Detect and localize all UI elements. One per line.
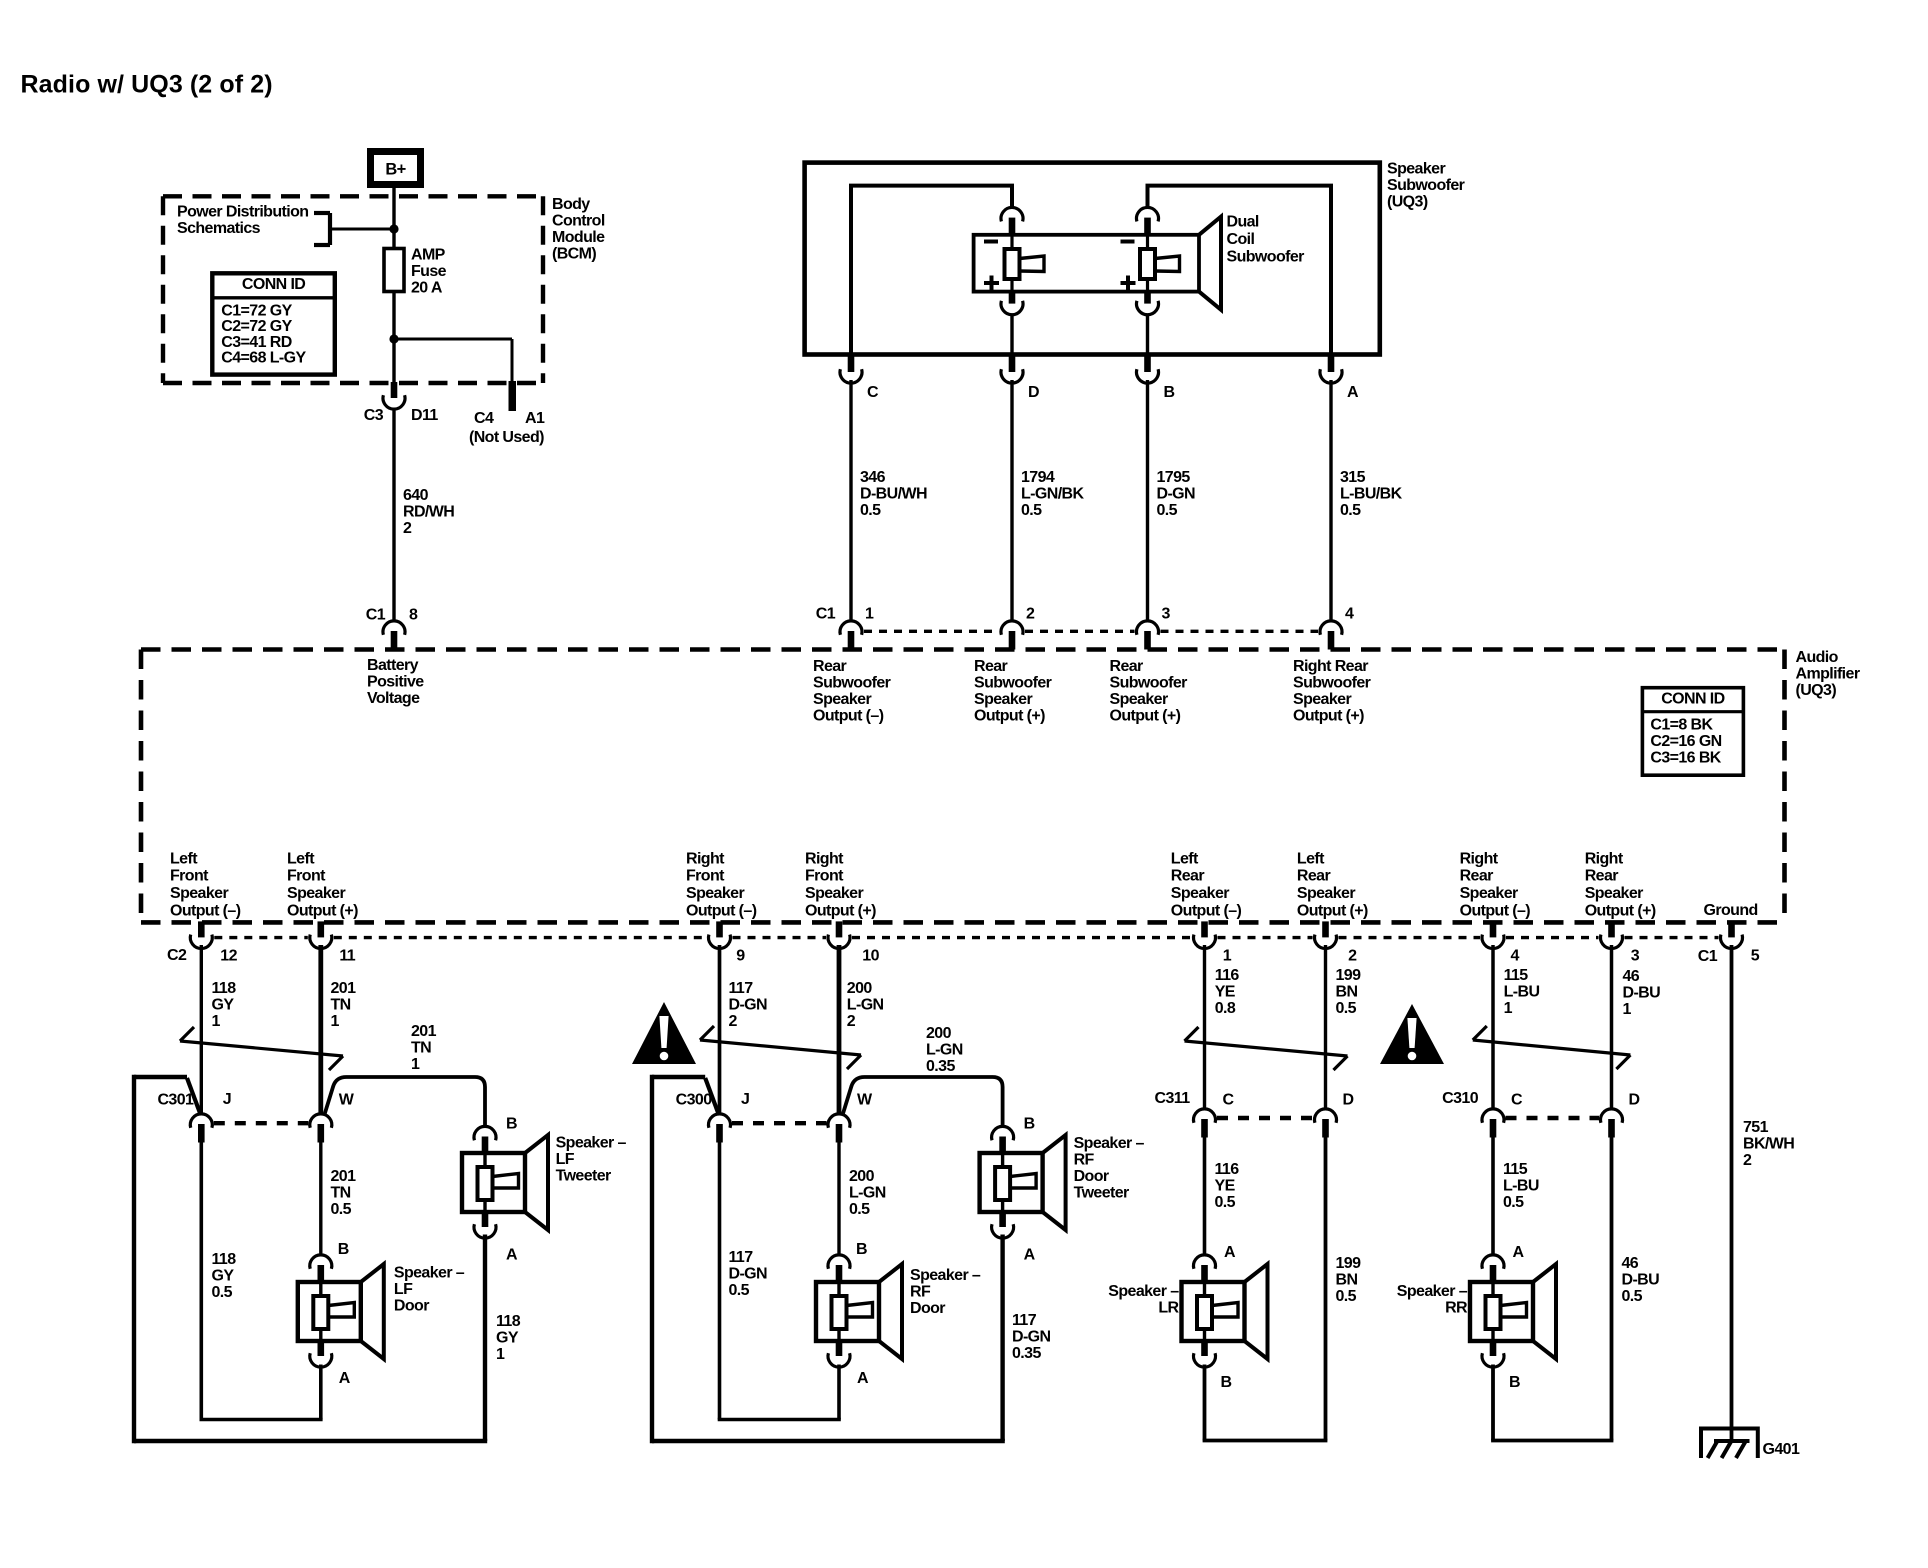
svg-text:2: 2	[729, 1013, 738, 1030]
svg-text:Output (+): Output (+)	[1297, 902, 1368, 919]
svg-text:L-GN/BK: L-GN/BK	[1021, 486, 1085, 503]
label: Right Rear Speaker Output (+)	[1585, 850, 1656, 919]
svg-text:2: 2	[847, 1013, 856, 1030]
svg-text:C310: C310	[1442, 1090, 1479, 1107]
svg-text:A: A	[1224, 1244, 1236, 1261]
label: pin 12	[220, 948, 237, 965]
svg-text:C2=72 GY: C2=72 GY	[221, 318, 292, 335]
svg-text:A: A	[1024, 1247, 1036, 1264]
wire 115 L-BU 1 (pin 4)	[1491, 945, 1495, 1109]
wire return loop RR	[1491, 1135, 1613, 1441]
C311 C-D dashed connector line	[1217, 1116, 1313, 1120]
svg-text:Speaker: Speaker	[170, 885, 228, 902]
twisted-pair arrow (front left)	[180, 1027, 343, 1070]
svg-text:0.5: 0.5	[1336, 1000, 1357, 1017]
svg-text:Output (–): Output (–)	[1171, 902, 1242, 919]
label: C1 (pin 8)	[366, 607, 386, 624]
speaker RR A connector	[1482, 1255, 1504, 1284]
svg-text:0.5: 0.5	[1021, 502, 1042, 519]
svg-text:D-BU/WH: D-BU/WH	[860, 486, 927, 503]
label: 200 L-GN 2	[847, 980, 884, 1030]
label: (Not Used)	[469, 429, 544, 446]
label: pin C	[867, 384, 879, 401]
label: Left Front Speaker Output (-)	[170, 850, 241, 919]
label: C (C310)	[1511, 1092, 1523, 1109]
label: 199 BN 0.5	[1336, 1255, 1362, 1305]
svg-text:C300: C300	[676, 1092, 713, 1109]
label: J	[223, 1091, 231, 1108]
label: 201 TN 0.5	[331, 1168, 357, 1218]
label: Speaker - RF Door Tweeter	[1074, 1135, 1145, 1202]
svg-text:Left: Left	[170, 850, 198, 867]
label: 116 YE 0.5	[1215, 1161, 1240, 1211]
svg-text:A: A	[857, 1370, 869, 1387]
svg-text:1: 1	[1623, 1001, 1632, 1018]
svg-text:201: 201	[331, 980, 357, 997]
label: Speaker - LF Door	[394, 1265, 465, 1315]
svg-text:1: 1	[331, 1013, 340, 1030]
svg-text:L-GN: L-GN	[849, 1185, 886, 1202]
label: Left Rear Speaker Output (-)	[1171, 850, 1242, 919]
amp bottom connector pin 1	[1194, 921, 1216, 948]
wire tweeter feed (W to tweeter B) LF	[325, 1077, 485, 1127]
tweeter A connector RF	[992, 1211, 1014, 1238]
label: Right Rear Subwoofer Speaker Output (+)	[1293, 658, 1371, 725]
svg-text:Amplifier: Amplifier	[1796, 666, 1860, 683]
warning triangle 2	[1380, 1004, 1444, 1064]
svg-text:3: 3	[1631, 948, 1640, 965]
svg-text:200: 200	[847, 980, 873, 997]
svg-text:Front: Front	[170, 868, 209, 885]
label: 751 BK/WH 2	[1743, 1119, 1794, 1169]
svg-text:Speaker –: Speaker –	[1397, 1283, 1468, 1300]
svg-text:Door: Door	[394, 1298, 429, 1315]
amp bottom connector pin 5	[1721, 921, 1743, 948]
svg-text:4: 4	[1345, 606, 1354, 623]
svg-text:Right Rear: Right Rear	[1293, 658, 1368, 675]
speaker LR	[1182, 1264, 1268, 1359]
label: B (door LF)	[338, 1241, 349, 1258]
amp connector C1 pin 2	[1001, 621, 1023, 650]
svg-text:C1=72 GY: C1=72 GY	[221, 302, 292, 319]
label: W	[857, 1092, 873, 1109]
svg-text:118: 118	[212, 1251, 237, 1268]
label: C301	[157, 1092, 194, 1109]
svg-text:1794: 1794	[1021, 469, 1055, 486]
svg-text:W: W	[339, 1092, 355, 1109]
node: junction to C4 branch	[389, 334, 398, 343]
svg-text:C3=41 RD: C3=41 RD	[221, 334, 291, 351]
svg-text:C: C	[1511, 1092, 1523, 1109]
svg-text:W: W	[857, 1092, 873, 1109]
svg-text:L-GN: L-GN	[926, 1042, 963, 1059]
wire return loop LR	[1203, 1135, 1328, 1441]
label: C2 (bottom row)	[167, 947, 187, 964]
svg-text:A1: A1	[525, 410, 545, 427]
svg-text:B: B	[1164, 384, 1175, 401]
subwoofer pin B connector	[1137, 356, 1159, 383]
wire tweeter feed (W to tweeter B) RF	[843, 1077, 1003, 1127]
C301 connector J	[190, 1114, 212, 1143]
label: B (tweeter LF)	[506, 1116, 517, 1133]
door speaker B connector LF	[310, 1255, 332, 1284]
svg-text:Dual: Dual	[1227, 214, 1259, 231]
label: Dual Coil Subwoofer	[1227, 214, 1305, 266]
svg-text:315: 315	[1340, 469, 1366, 486]
wire 116 YE 0.8 (pin 1)	[1203, 945, 1206, 1109]
svg-text:L-BU/BK: L-BU/BK	[1340, 486, 1403, 503]
svg-text:0.5: 0.5	[331, 1201, 352, 1218]
label: A (speaker RR)	[1513, 1244, 1525, 1261]
BCM CONN ID table	[212, 273, 334, 374]
label: pin 10	[862, 948, 879, 965]
svg-text:346: 346	[860, 469, 886, 486]
svg-text:Rear: Rear	[1110, 658, 1144, 675]
svg-text:0.35: 0.35	[926, 1058, 955, 1075]
wire coil1 top routing to pin C	[851, 186, 1012, 355]
svg-text:200: 200	[849, 1168, 875, 1185]
wire to Power Distribution Schematics bracket	[330, 228, 394, 231]
label: pin B	[1164, 384, 1175, 401]
svg-text:J: J	[223, 1091, 231, 1108]
svg-text:Speaker –: Speaker –	[910, 1267, 981, 1284]
svg-text:LF: LF	[394, 1281, 413, 1298]
coil2 top terminal connector	[1137, 207, 1159, 236]
svg-text:C4: C4	[474, 410, 494, 427]
svg-text:B: B	[506, 1116, 517, 1133]
svg-text:Door: Door	[910, 1300, 945, 1317]
twisted-pair arrow (rear right)	[1473, 1026, 1631, 1069]
amp bottom connector pin 3	[1600, 921, 1622, 948]
svg-text:Subwoofer: Subwoofer	[1110, 675, 1188, 692]
svg-text:D: D	[1343, 1092, 1354, 1109]
svg-text:YE: YE	[1215, 984, 1236, 1001]
speaker RR	[1470, 1264, 1556, 1359]
svg-text:L-GN: L-GN	[847, 997, 884, 1014]
svg-text:117: 117	[729, 980, 754, 997]
svg-text:2: 2	[1348, 948, 1357, 965]
label: 315 L-BU/BK 0.5	[1340, 469, 1403, 519]
LF circuit loop outline	[134, 1075, 487, 1443]
label: Battery Positive Voltage	[367, 657, 424, 707]
svg-text:C3: C3	[364, 407, 384, 424]
C300 connector W	[828, 1114, 850, 1143]
svg-text:Rear: Rear	[1171, 868, 1205, 885]
svg-text:Body: Body	[552, 196, 590, 213]
svg-text:0.5: 0.5	[1622, 1288, 1643, 1305]
svg-text:Front: Front	[686, 868, 725, 885]
wire C to speaker LR	[1203, 1135, 1207, 1255]
amp bottom connector pin 9	[709, 921, 731, 948]
wire 199 BN 0.5 (pin 2)	[1324, 945, 1327, 1109]
svg-text:Right: Right	[1460, 850, 1499, 867]
label: C4	[474, 410, 494, 427]
svg-text:(Not Used): (Not Used)	[469, 429, 544, 446]
svg-text:0.5: 0.5	[849, 1201, 870, 1218]
amp bottom connector pin 10	[828, 921, 850, 948]
svg-text:199: 199	[1336, 1255, 1362, 1272]
twisted-pair arrow (rear left)	[1185, 1027, 1348, 1070]
subwoofer coil 2 (B)	[1140, 235, 1180, 292]
C1 connector dotted bus line	[864, 630, 1318, 633]
svg-text:118: 118	[496, 1313, 521, 1330]
svg-text:C3=16 BK: C3=16 BK	[1650, 749, 1721, 766]
svg-text:10: 10	[862, 948, 879, 965]
label: coil2 minus	[1121, 240, 1135, 244]
svg-text:Output (–): Output (–)	[170, 902, 241, 919]
label: coil1 minus	[984, 240, 998, 244]
svg-text:GY: GY	[496, 1330, 519, 1347]
label: 118 GY 1	[212, 980, 237, 1030]
svg-text:D-GN: D-GN	[729, 997, 768, 1014]
label: D11	[411, 407, 438, 424]
label: AMP Fuse 20 A	[411, 247, 447, 297]
label: pin A	[1347, 384, 1359, 401]
label: 2	[1026, 606, 1035, 623]
speaker subwoofer (UQ3) box	[805, 163, 1380, 355]
svg-text:200: 200	[926, 1025, 952, 1042]
subwoofer pin D connector	[1001, 356, 1023, 383]
label: A (door LF)	[339, 1370, 351, 1387]
svg-text:Subwoofer: Subwoofer	[1227, 249, 1305, 266]
svg-text:(UQ3): (UQ3)	[1796, 682, 1837, 699]
coil1 bottom terminal connector	[1001, 291, 1023, 315]
label: 1795 D-GN 0.5	[1157, 469, 1196, 519]
svg-text:Speaker: Speaker	[813, 691, 871, 708]
label: A (speaker LR)	[1224, 1244, 1236, 1261]
svg-text:B: B	[1509, 1374, 1520, 1391]
node: junction at power distribution tap	[389, 224, 398, 233]
label: 115 L-BU 0.5	[1503, 1161, 1539, 1211]
svg-text:0.8: 0.8	[1215, 1000, 1236, 1017]
label: W	[339, 1092, 355, 1109]
svg-text:RR: RR	[1445, 1300, 1468, 1317]
svg-text:Radio w/ UQ3 (2 of 2): Radio w/ UQ3 (2 of 2)	[21, 71, 273, 99]
speaker tweeter LF	[462, 1135, 548, 1230]
wire 46 D-BU 1 (pin 3)	[1610, 945, 1614, 1109]
wire tweeter return (right edge bottom) LF	[483, 1235, 487, 1442]
svg-text:Module: Module	[552, 229, 605, 246]
label: C300	[676, 1092, 713, 1109]
label: Speaker Subwoofer (UQ3)	[1387, 161, 1465, 211]
svg-text:0.5: 0.5	[1503, 1194, 1524, 1211]
svg-text:Rear: Rear	[1460, 868, 1494, 885]
label: 117 D-GN 0.5	[729, 1249, 768, 1299]
amp bottom connector pin 2	[1315, 921, 1337, 948]
C310 connector C	[1482, 1109, 1504, 1138]
svg-text:Speaker: Speaker	[974, 691, 1032, 708]
svg-text:0.5: 0.5	[1340, 502, 1361, 519]
svg-text:115: 115	[1503, 1161, 1528, 1178]
label: Rear Subwoofer Speaker Output (+) [pin3]	[1110, 658, 1188, 725]
svg-text:Subwoofer: Subwoofer	[974, 675, 1052, 692]
label: pin D	[1028, 384, 1039, 401]
svg-text:Speaker: Speaker	[1293, 691, 1351, 708]
svg-text:Speaker: Speaker	[1387, 161, 1445, 178]
svg-text:4: 4	[1511, 948, 1520, 965]
wire coil2 bottom to pin B	[1146, 315, 1149, 355]
svg-text:Output (+): Output (+)	[1110, 708, 1181, 725]
label: Left Rear Speaker Output (+)	[1297, 850, 1368, 919]
wire 118 GY 1 (pin 12)	[200, 945, 203, 1114]
power symbol B+	[371, 152, 421, 185]
svg-text:BN: BN	[1336, 1272, 1358, 1289]
tweeter A connector LF	[474, 1211, 496, 1238]
svg-text:D11: D11	[411, 407, 438, 424]
wire fuse to BCM bottom	[392, 292, 395, 383]
svg-text:Output (–): Output (–)	[813, 708, 884, 725]
svg-text:A: A	[506, 1247, 518, 1264]
svg-text:Front: Front	[287, 868, 326, 885]
label: 1	[865, 606, 874, 623]
label: Ground	[1704, 902, 1758, 919]
label: 4	[1345, 606, 1354, 623]
speaker door LF	[298, 1264, 384, 1359]
svg-text:(BCM): (BCM)	[552, 246, 596, 263]
svg-text:115: 115	[1504, 967, 1529, 984]
label: A1	[525, 410, 545, 427]
svg-text:1: 1	[1223, 948, 1232, 965]
label: 200 L-GN 0.5	[849, 1168, 886, 1218]
svg-text:TN: TN	[331, 1185, 351, 1202]
label: Power Distribution Schematics	[177, 204, 308, 238]
label: A (tweeter RF)	[1024, 1247, 1036, 1264]
label: A (tweeter LF)	[506, 1247, 518, 1264]
svg-text:0.35: 0.35	[1012, 1345, 1041, 1362]
label: 8	[409, 607, 418, 624]
wire 200 L-GN 2 (pin 10)	[837, 945, 842, 1114]
label: Right Front Speaker Output (-)	[686, 850, 757, 919]
coil1 top terminal connector	[1001, 207, 1023, 236]
C310 C-D dashed connector line	[1506, 1116, 1600, 1120]
svg-text:0.5: 0.5	[1215, 1194, 1236, 1211]
svg-text:Speaker: Speaker	[1297, 885, 1355, 902]
svg-text:Voltage: Voltage	[367, 690, 420, 707]
label: pin 11	[339, 948, 355, 965]
svg-text:201: 201	[331, 1168, 357, 1185]
svg-text:B: B	[856, 1241, 867, 1258]
svg-text:C: C	[867, 384, 879, 401]
wire 346 D-BU/WH 0.5 (pin C to amp 1)	[849, 380, 852, 620]
svg-text:B+: B+	[385, 160, 405, 178]
label: D (C310)	[1629, 1092, 1640, 1109]
wire W to door speaker RF	[837, 1140, 840, 1255]
label: Speaker - RF Door	[910, 1267, 981, 1317]
label: Left Front Speaker Output (+)	[287, 850, 358, 919]
svg-text:Output (–): Output (–)	[1460, 902, 1531, 919]
pin C4 A1 stub (not used)	[509, 381, 517, 411]
label: pin 3	[1631, 948, 1640, 965]
svg-text:1: 1	[212, 1013, 221, 1030]
label: J	[741, 1091, 749, 1108]
svg-text:Tweeter: Tweeter	[1074, 1185, 1129, 1202]
svg-text:5: 5	[1751, 948, 1760, 965]
svg-text:A: A	[1513, 1244, 1525, 1261]
label: B (speaker RR)	[1509, 1374, 1520, 1391]
speaker LR A connector	[1194, 1255, 1216, 1284]
svg-text:640: 640	[403, 487, 429, 504]
label: B (tweeter RF)	[1024, 1116, 1035, 1133]
label: 201 TN 1	[411, 1023, 437, 1073]
svg-text:B: B	[1024, 1116, 1035, 1133]
svg-text:Control: Control	[552, 213, 605, 230]
svg-text:Speaker –: Speaker –	[1074, 1135, 1145, 1152]
svg-text:Rear: Rear	[1297, 868, 1331, 885]
label: Speaker - LR	[1108, 1283, 1179, 1317]
svg-text:Rear: Rear	[974, 658, 1008, 675]
svg-text:Speaker: Speaker	[1171, 885, 1229, 902]
svg-text:12: 12	[220, 948, 237, 965]
label: 46 D-BU 0.5	[1622, 1255, 1660, 1305]
svg-text:BK/WH: BK/WH	[1743, 1136, 1794, 1153]
svg-text:BN: BN	[1336, 984, 1358, 1001]
svg-text:Speaker: Speaker	[686, 885, 744, 902]
svg-text:B: B	[338, 1241, 349, 1258]
label: 116 YE 0.8	[1215, 967, 1240, 1017]
label: pin 2	[1348, 948, 1357, 965]
label: Right Rear Speaker Output (-)	[1460, 850, 1531, 919]
wire tweeter return (right edge bottom) RF	[1000, 1235, 1004, 1442]
wire 315 L-BU/BK 0.5 (pin A to amp 4)	[1329, 380, 1332, 620]
speaker door RF	[816, 1264, 902, 1359]
amp bottom connector pin 12	[190, 921, 212, 948]
C2/C1 connector dotted bus line	[214, 936, 1718, 939]
svg-text:Door: Door	[1074, 1168, 1109, 1185]
svg-text:1: 1	[411, 1056, 420, 1073]
wire 117 D-GN 2 (pin 9)	[718, 945, 722, 1114]
label: 117 D-GN 2	[729, 980, 768, 1030]
door speaker A connector RF	[828, 1340, 850, 1367]
label: 117 D-GN 0.35	[1012, 1312, 1051, 1362]
RF circuit loop outline	[652, 1075, 1005, 1443]
svg-text:RD/WH: RD/WH	[403, 504, 454, 521]
fuse AMP Fuse 20 A	[384, 249, 404, 292]
svg-text:TN: TN	[411, 1040, 431, 1057]
svg-text:CONN ID: CONN ID	[242, 276, 305, 293]
warning triangle 1	[632, 1002, 696, 1064]
C301 connector W	[310, 1114, 332, 1143]
svg-text:46: 46	[1622, 1255, 1639, 1272]
svg-text:L-BU: L-BU	[1503, 1178, 1539, 1195]
svg-text:Subwoofer: Subwoofer	[1293, 675, 1371, 692]
label: C310	[1442, 1090, 1479, 1107]
C311 connector C	[1194, 1109, 1216, 1138]
amp bottom connector pin 4	[1482, 921, 1504, 948]
svg-text:Fuse: Fuse	[411, 263, 447, 280]
subwoofer coil 1 (D)	[1005, 235, 1045, 292]
wire 640 RD/WH 2	[392, 408, 395, 620]
label: 115 L-BU 1	[1504, 967, 1540, 1017]
svg-text:RF: RF	[910, 1284, 931, 1301]
svg-text:C4=68 L-GY: C4=68 L-GY	[221, 350, 306, 367]
wire J return loop LF	[200, 1140, 323, 1420]
wire B+ to fuse (inside BCM)	[392, 187, 395, 249]
Body Control Module dashed box	[163, 196, 543, 383]
svg-text:Positive: Positive	[367, 674, 424, 691]
door speaker B connector RF	[828, 1255, 850, 1284]
svg-text:C1=8 BK: C1=8 BK	[1650, 716, 1713, 733]
svg-text:C1: C1	[366, 607, 386, 624]
wire 1795 D-GN 0.5 (pin B to amp 3)	[1146, 380, 1149, 620]
svg-text:CONN ID: CONN ID	[1661, 690, 1724, 707]
amp connector C1 pin 4	[1320, 621, 1342, 650]
label: C311	[1155, 1090, 1191, 1107]
svg-text:Battery: Battery	[367, 657, 419, 674]
bracket: Power Distribution Schematics reference	[314, 213, 330, 245]
svg-text:Schematics: Schematics	[177, 220, 261, 237]
wire W to door speaker LF	[319, 1140, 322, 1255]
wire J return loop RF	[718, 1140, 841, 1420]
